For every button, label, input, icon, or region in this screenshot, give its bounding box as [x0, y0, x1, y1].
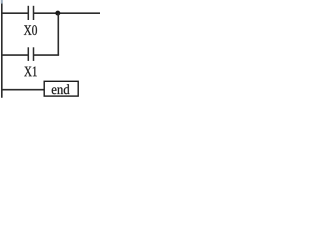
wire rung3	[1, 89, 44, 91]
label end	[52, 84, 70, 94]
wire rung2 left segment	[1, 54, 28, 56]
contact X1	[28, 47, 33, 61]
wire rung2 right segment	[34, 54, 60, 56]
label X1	[24, 67, 36, 77]
left power rail	[1, 3, 3, 98]
wire branch vertical	[57, 13, 59, 55]
end block	[44, 81, 78, 96]
wire rung1 right segment	[34, 12, 101, 14]
junction node	[55, 11, 60, 16]
contact X0	[28, 6, 33, 20]
wire rung1 left segment	[1, 12, 28, 14]
label X0	[24, 25, 37, 35]
left power rail top cap (light)	[1, 0, 3, 4]
